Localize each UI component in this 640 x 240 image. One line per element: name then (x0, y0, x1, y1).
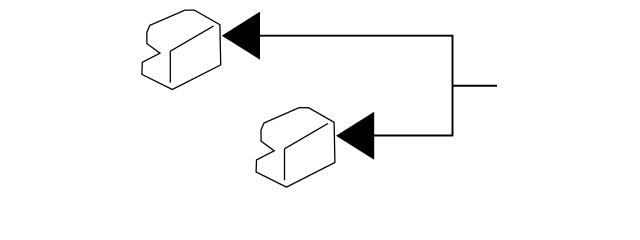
module box U2 outline (256, 108, 335, 187)
module box U1 front edge (169, 51, 171, 82)
module box U2 (256, 108, 335, 187)
module box U1 (142, 10, 221, 89)
arrowhead A2 into U2 (336, 112, 374, 160)
module box U2 front edge (284, 149, 286, 180)
wire right vertical (452, 35, 454, 137)
wire top horizontal (259, 35, 453, 37)
wire stub right (453, 85, 498, 87)
wire bottom horizontal (374, 135, 453, 137)
module box U2 fold edge (285, 124, 328, 149)
module box U1 fold edge (170, 26, 213, 51)
arrowhead A1 into U1 (222, 12, 260, 60)
module box U1 outline (142, 10, 221, 89)
